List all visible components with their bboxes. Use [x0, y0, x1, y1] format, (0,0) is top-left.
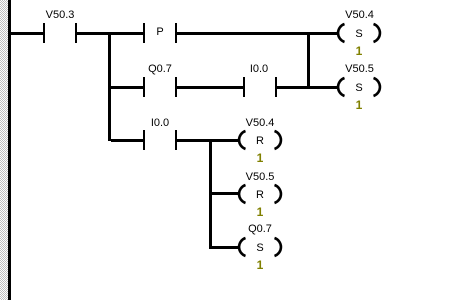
contact V50.3 bars	[43, 23, 45, 43]
svg-text:Q0.7: Q0.7	[248, 223, 272, 235]
svg-text:V50.4: V50.4	[345, 9, 374, 21]
coil R V50.5 parentheses	[239, 185, 281, 203]
wire row1 V50.3 to contact P	[77, 32, 143, 35]
wire row2 I0.0 to coil S V50.5	[277, 86, 338, 89]
svg-text:V50.4: V50.4	[246, 117, 275, 129]
coil S V50.5 parentheses	[338, 78, 380, 96]
wire row3 rail A to contact I0.0	[111, 139, 143, 142]
contact I0.0 row2 bars	[243, 77, 245, 97]
coil R V50.4 parentheses	[239, 131, 281, 149]
branch rail C (coil branch bottom)	[209, 139, 212, 248]
wire row2 rail A to contact Q0.7	[111, 86, 143, 89]
wire row2 Q0.7 to contact I0.0	[177, 86, 243, 89]
svg-text:1: 1	[356, 44, 363, 58]
svg-text:V50.5: V50.5	[345, 63, 374, 75]
svg-text:P: P	[156, 26, 163, 38]
svg-text:S: S	[256, 242, 263, 254]
wire row3 I0.0 to coil R V50.4	[177, 139, 239, 142]
svg-text:V50.3: V50.3	[46, 9, 75, 21]
svg-text:Q0.7: Q0.7	[148, 63, 172, 75]
wire row1 P to coil S V50.4	[177, 32, 338, 35]
branch rail B (coil branch top right)	[307, 32, 310, 88]
svg-text:1: 1	[356, 98, 363, 112]
power rail (left bus bar)	[8, 0, 11, 300]
contact P bars	[143, 23, 145, 43]
wire row1 rail to contact V50.3	[11, 32, 43, 35]
branch rail A (node after V50.3)	[108, 32, 111, 141]
svg-text:1: 1	[257, 205, 264, 219]
svg-text:1: 1	[257, 258, 264, 272]
svg-text:V50.5: V50.5	[246, 171, 275, 183]
svg-text:I0.0: I0.0	[151, 117, 169, 129]
svg-text:S: S	[355, 82, 362, 94]
contact Q0.7 bars	[143, 77, 145, 97]
left margin dithered gutter	[0, 0, 8, 300]
contact I0.0 row3 bars	[143, 130, 145, 150]
wire row4 rail C to coil R V50.5	[209, 192, 239, 195]
coil S Q0.7 parentheses	[239, 238, 281, 256]
coil S V50.4 parentheses	[338, 24, 380, 42]
wire row5 rail C to coil S Q0.7	[209, 246, 239, 249]
svg-text:I0.0: I0.0	[250, 63, 268, 75]
svg-text:1: 1	[257, 151, 264, 165]
svg-text:S: S	[355, 28, 362, 40]
svg-text:R: R	[256, 189, 264, 201]
svg-text:R: R	[256, 135, 264, 147]
